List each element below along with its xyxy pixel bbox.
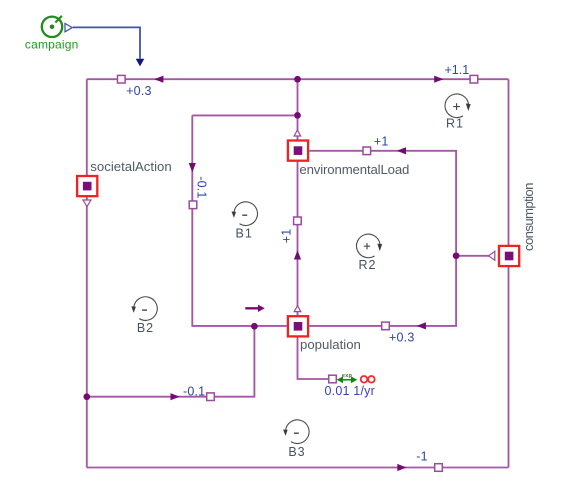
loop symbol R2 (357, 234, 383, 258)
port triangle above environmentalLoad (294, 130, 301, 136)
arrowhead right on -0.1 bottom wire (171, 393, 180, 400)
arrowhead left on +0.3 right wire (417, 322, 426, 329)
port triangle above population (294, 306, 301, 312)
junction node at (86.8,396.7) (83, 393, 90, 400)
svg-text:+1.1: +1.1 (445, 63, 470, 77)
wire left vertical (86, 79, 88, 467)
wire from top junction down into environmentalLoad (297, 79, 299, 139)
wire bottom horizontal (87, 467, 509, 469)
open square connector -0.1 bottom (207, 393, 215, 401)
loop symbol B1 (232, 202, 258, 226)
wire -0.1 bottom branch (87, 326, 255, 397)
wire +1 right loop envLoad-consumption-population (309, 151, 456, 326)
loop symbol R1 (445, 94, 471, 118)
junction node at (254.4,326.2) (251, 323, 258, 330)
svg-text:B3: B3 (288, 445, 305, 459)
svg-text:environmentalLoad: environmentalLoad (299, 162, 409, 177)
wire blue from campaign (73, 27, 140, 58)
svg-text:+1: +1 (374, 134, 389, 148)
port triangle below societalAction (83, 200, 91, 207)
wire horizontal branch y=115 (192, 114, 297, 116)
junction node at (297.5,115.4) (294, 112, 301, 119)
wire population bottom to rate connector (298, 337, 329, 379)
svg-text:+0.3: +0.3 (389, 330, 414, 344)
svg-text:0.01 1/yr: 0.01 1/yr (325, 384, 375, 398)
arrowhead left on +0.3 top wire (154, 76, 163, 83)
arrowhead blue down (136, 59, 145, 67)
wire environmentalLoad bottom to population top (297, 162, 299, 316)
port triangle right of campaign (65, 23, 72, 31)
svg-text:societalAction: societalAction (90, 159, 171, 174)
svg-text:-0.1: -0.1 (195, 176, 209, 198)
wire -0.1 vertical then into population left (192, 115, 286, 326)
open square connector -0.1 vertical (189, 201, 197, 209)
open square connector +1.1 (470, 75, 478, 83)
rate converter green exp arrow (337, 373, 358, 383)
wire top horizontal (loop top) (87, 78, 509, 80)
svg-text:+0.3: +0.3 (126, 84, 151, 98)
svg-text:B2: B2 (137, 321, 154, 335)
open square connector -1 bottom (435, 464, 443, 472)
svg-text:R2: R2 (359, 258, 377, 272)
open square connector rate 0.01 (329, 375, 337, 383)
wire right vertical (508, 79, 510, 467)
svg-text:B1: B1 (236, 226, 253, 240)
junction node at (456.1,255.8) (453, 252, 460, 259)
svg-text:-0.1: -0.1 (183, 384, 205, 398)
svg-text:population: population (300, 337, 361, 352)
svg-text:consumption: consumption (521, 183, 536, 252)
infinity symbol red (361, 376, 375, 383)
open square connector +1 horizontal (363, 147, 371, 155)
loop symbol B2 (131, 297, 157, 321)
arrowhead up on +1 vertical wire (294, 250, 301, 259)
wire spur junction to consumption port (456, 255, 489, 257)
node societalAction box (77, 176, 97, 196)
arrowhead down on -0.1 vertical wire (189, 163, 196, 172)
svg-text:+1: +1 (279, 229, 293, 244)
svg-text:campaign: campaign (25, 37, 79, 51)
node population box (288, 316, 308, 336)
open square connector +1 vertical (294, 217, 302, 225)
node consumption box (499, 246, 519, 266)
open square connector +0.3 top (118, 75, 126, 83)
campaign symbol circle (42, 17, 62, 37)
junction node at (297.5,79) (294, 76, 301, 83)
port triangle left of consumption (489, 251, 495, 260)
svg-text:R1: R1 (446, 117, 464, 131)
standalone flow arrow icon near population (245, 305, 264, 312)
arrowhead right on -1 bottom wire (397, 464, 406, 471)
loop symbol B3 (283, 420, 309, 444)
arrowhead right on +1.1 wire (434, 76, 443, 83)
node environmentalLoad box (288, 141, 308, 161)
open square connector +0.3 right (382, 322, 390, 330)
svg-text:exp: exp (342, 373, 353, 379)
arrowhead left on +1 horizontal wire (397, 147, 406, 154)
svg-text:-1: -1 (416, 450, 428, 464)
